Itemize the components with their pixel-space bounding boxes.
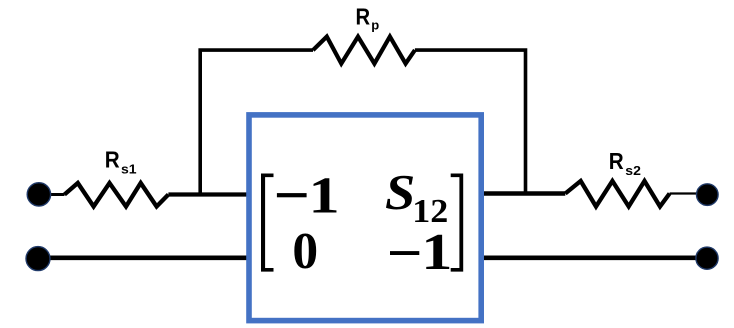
svg-text:s1: s1 [121, 162, 137, 176]
svg-text:R: R [609, 148, 624, 175]
svg-text:1: 1 [308, 167, 339, 224]
svg-text:S: S [385, 166, 415, 220]
svg-text:s2: s2 [625, 163, 641, 177]
svg-text:R: R [105, 146, 120, 173]
svg-text:1: 1 [421, 224, 452, 281]
svg-text:p: p [371, 18, 379, 33]
svg-text:0: 0 [292, 223, 318, 280]
svg-text:R: R [356, 3, 371, 30]
